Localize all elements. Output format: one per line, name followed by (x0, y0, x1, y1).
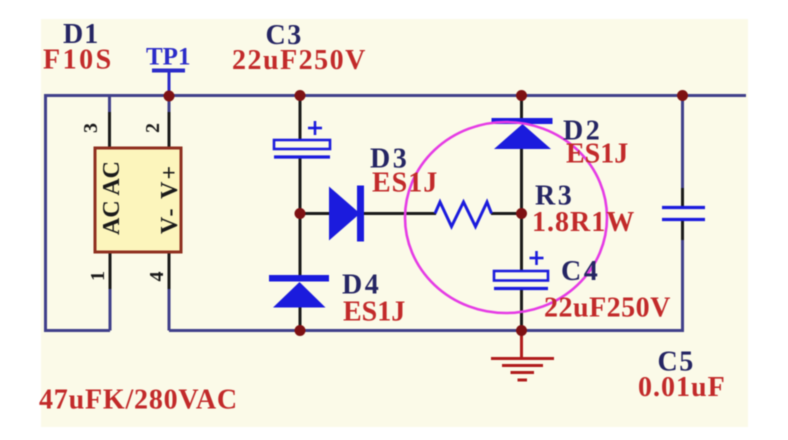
capacitor C3 symbol (274, 121, 330, 157)
svg-text:4: 4 (146, 272, 168, 282)
wire pin 1 drop (109, 252, 112, 331)
value ES1J D4 (343, 297, 405, 328)
svg-text:TP1: TP1 (146, 44, 190, 71)
svg-text:2: 2 (142, 123, 164, 133)
highlight circle (405, 122, 607, 313)
svg-text:22uF250V: 22uF250V (544, 293, 671, 324)
value ES1J D2 (566, 139, 628, 170)
label D4 (342, 270, 381, 301)
diode D4 symbol (269, 275, 329, 308)
ground symbol (491, 331, 554, 380)
svg-text:1: 1 (87, 271, 109, 281)
node TP1 junction (164, 91, 175, 102)
pin number 4 (146, 272, 168, 282)
svg-text:AC AC: AC AC (99, 161, 125, 235)
node C5 top junction (677, 90, 688, 101)
svg-text:C4: C4 (561, 256, 600, 287)
wire D3 cathode to R3 (363, 212, 436, 215)
label D3 (370, 144, 409, 175)
wire D2 top stub (520, 96, 523, 120)
value ES1J D3 (372, 168, 438, 199)
value 0.01uF (638, 372, 726, 403)
svg-text:V- V+: V- V+ (157, 164, 183, 234)
wire node to C4 (520, 214, 523, 273)
label D1 (63, 19, 99, 50)
pin number 2 (142, 123, 164, 133)
node C4 ground junction (516, 325, 527, 336)
test point TP1 bar (152, 69, 185, 97)
label D2 (563, 116, 602, 147)
label C3 (266, 20, 303, 51)
node D4 bottom junction (295, 325, 306, 336)
node D3 C3 D4 junction (295, 208, 306, 219)
pin label AC AC (99, 161, 125, 235)
node D2 top junction (516, 90, 527, 101)
wire pin 2 drop (168, 96, 171, 149)
pin label V- V+ (157, 164, 183, 234)
wire C5 branch upper (681, 96, 684, 207)
wire pin 3 drop (108, 96, 111, 150)
wire C3 top stub (299, 96, 302, 142)
wire C4 to bottom rail (520, 288, 523, 331)
value 47uFK/280VAC (39, 385, 238, 416)
capacitor C5 symbol (662, 208, 705, 220)
resistor R3 symbol (435, 202, 492, 227)
label TP1 (146, 44, 190, 71)
wire top rail (45, 94, 746, 97)
svg-text:ES1J: ES1J (372, 168, 438, 199)
component D1 bridge rectifier box (95, 148, 181, 252)
value 1.8R1W (532, 207, 635, 238)
node R3 D2 C4 junction (516, 208, 527, 219)
wire bottom rail (169, 329, 684, 332)
svg-text:F10S: F10S (43, 45, 114, 76)
wire pin 4 drop (168, 252, 171, 331)
diode D2 symbol (492, 118, 553, 149)
svg-text:47uFK/280VAC: 47uFK/280VAC (39, 385, 238, 416)
svg-text:ES1J: ES1J (566, 139, 628, 170)
wire C3 bottom to node (299, 157, 302, 214)
wire C5 branch lower (681, 221, 684, 332)
pin number 1 (87, 271, 109, 281)
node C3 top junction (295, 90, 306, 101)
wire D4 to bottom rail (299, 307, 302, 331)
wire node to D4 (299, 214, 302, 277)
wire R3 to node (491, 212, 521, 215)
wire bottom left segment (45, 329, 110, 332)
svg-text:ES1J: ES1J (343, 297, 405, 328)
svg-text:0.01uF: 0.01uF (638, 372, 726, 403)
label C4 (561, 256, 600, 287)
wire node to D3 anode (300, 212, 331, 215)
diode D3 symbol (329, 186, 364, 242)
wire left vertical (44, 94, 47, 332)
value 22uF250V bottom (544, 293, 671, 324)
svg-text:22uF250V: 22uF250V (232, 45, 367, 76)
svg-text:1.8R1W: 1.8R1W (532, 207, 635, 238)
wire D2 to node (520, 148, 523, 214)
capacitor C4 symbol (494, 251, 548, 289)
label R3 (535, 181, 574, 212)
value 22uF250V top (232, 45, 367, 76)
value F10S (43, 45, 114, 76)
label C5 (658, 347, 695, 378)
svg-text:3: 3 (80, 123, 102, 133)
pin number 3 (80, 123, 102, 133)
